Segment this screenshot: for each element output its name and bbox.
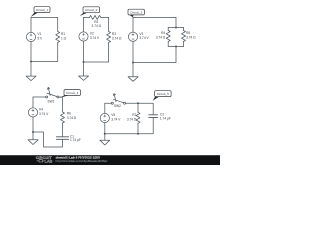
capacitor C2 [149, 115, 158, 118]
wire: circuit 1 left branch [30, 17, 32, 61]
ground circuit 5 [100, 134, 110, 145]
junction node R7 bottom [137, 133, 139, 135]
svg-text:3.74 V: 3.74 V [139, 36, 149, 40]
wire: R7 bottom lead [137, 123, 139, 133]
capacitor C1 [56, 137, 68, 140]
wire: circuit 4 top left [33, 96, 46, 98]
callout flag Circuit_2 [80, 7, 100, 16]
ground circuit 3 [128, 63, 138, 82]
svg-text:3.74 V: 3.74 V [111, 117, 121, 121]
voltage source V4 [28, 108, 37, 117]
svg-text:3.74 Ω: 3.74 Ω [67, 116, 77, 120]
svg-text:1.74 μF: 1.74 μF [70, 138, 81, 142]
wire: circuit 1 right bottom lead + bottom [31, 43, 58, 62]
wire: circuit 2 top right [101, 16, 109, 18]
junction node SW2-R7 top [137, 102, 139, 104]
wire: circuit 2 left branch [83, 17, 85, 62]
switch SW1 blade [47, 93, 57, 97]
callout flag Circuit_5 [153, 91, 171, 101]
wire: circuit 5 top right [126, 103, 154, 114]
wire: R5 bottom lead [183, 42, 185, 47]
wire: circuit 1 top [31, 16, 58, 18]
wire: circuit 3 top [133, 17, 176, 27]
switch SW2 arrow [113, 94, 116, 102]
switch SW1 terminal left [46, 96, 48, 98]
junction node circuit 1 ground [30, 61, 32, 63]
svg-text:SW2: SW2 [114, 104, 121, 108]
callout flag Circuit_1 [31, 7, 50, 17]
wire: R4 top lead [167, 28, 169, 31]
svg-text:3.74 Ω: 3.74 Ω [186, 35, 196, 39]
wire: circuit 5 left branch [104, 103, 106, 134]
wire: circuit 2 right bottom lead + bottom [84, 43, 109, 63]
wire: circuit 3 parallel top bar [168, 27, 183, 29]
wire: circuit 1 right top lead [57, 17, 59, 31]
wire: circuit 2 right top lead [108, 17, 110, 31]
ground circuit 2 [79, 62, 89, 80]
switch SW2 terminal left [111, 102, 113, 104]
wire: R6 to C1 lead [62, 123, 64, 137]
svg-text:5 V: 5 V [37, 36, 43, 40]
svg-text:3.74 V: 3.74 V [39, 112, 49, 116]
voltage source V1 [26, 32, 35, 41]
voltage source V3 [128, 32, 137, 41]
watermark bar [0, 155, 220, 165]
wire: circuit 4 left branch [32, 97, 34, 132]
svg-text:SW1: SW1 [48, 100, 55, 104]
switch SW2 terminal right [124, 102, 126, 104]
junction node parallel top [175, 27, 177, 29]
wire: C2 bottom lead + circuit 5 bottom [105, 117, 153, 133]
callout flag Circuit_3 [128, 9, 144, 17]
junction node circuit 4 ground [32, 131, 34, 133]
svg-text:1.74 μF: 1.74 μF [160, 117, 171, 121]
svg-text:http://circuitlab.com/c6pd8sws: http://circuitlab.com/c6pd8swsku8r68pr [56, 159, 108, 163]
wire: circuit 3 parallel bottom bar [168, 46, 183, 48]
resistor R4 [166, 31, 170, 42]
svg-text:Circuit_4: Circuit_4 [66, 91, 78, 95]
wire: circuit 5 top left [105, 102, 112, 104]
callout flag Circuit_4 [59, 90, 80, 98]
junction node circuit 2 ground [83, 61, 85, 63]
svg-text:Circuit_5: Circuit_5 [157, 92, 169, 96]
resistor R2 [90, 15, 101, 19]
resistor R5 [182, 31, 186, 42]
junction node circuit 3 ground [132, 62, 134, 64]
svg-text:3.74 V: 3.74 V [90, 36, 100, 40]
resistor R7 [136, 112, 140, 123]
wire: circuit 2 top left [84, 16, 90, 18]
svg-text:3.74 Ω: 3.74 Ω [92, 24, 102, 28]
wire: circuit 4 bottom [33, 132, 63, 147]
wire: circuit 3 left branch [132, 17, 134, 62]
voltage source V5 [100, 113, 109, 122]
svg-text:3.74 Ω: 3.74 Ω [156, 35, 166, 39]
ground circuit 1 [26, 62, 36, 81]
svg-text:Circuit_2: Circuit_2 [85, 8, 97, 12]
wire: R5 top lead [183, 28, 185, 31]
voltage source V2 [79, 32, 88, 41]
resistor R6 [61, 112, 65, 123]
svg-text:3.74 Ω: 3.74 Ω [127, 117, 137, 121]
switch SW1 arrow [48, 87, 51, 95]
wire: circuit 4 top right [59, 97, 63, 112]
switch SW1 terminal right [57, 96, 59, 98]
svg-text:1 Ω: 1 Ω [61, 36, 67, 40]
wire: circuit 3 right leg + bottom [133, 47, 176, 63]
svg-text:Circuit_3: Circuit_3 [130, 11, 142, 15]
wire: R4 bottom lead [167, 42, 169, 47]
wire: R7 top lead [137, 103, 139, 112]
junction node circuit 5 ground [104, 133, 106, 135]
svg-text:3.74 Ω: 3.74 Ω [112, 36, 122, 40]
svg-text:LAB: LAB [45, 160, 53, 164]
resistor R3 [107, 32, 111, 43]
resistor R1 [56, 32, 60, 43]
svg-text:Circuit_1: Circuit_1 [36, 8, 48, 12]
junction node parallel bottom [175, 46, 177, 48]
ground circuit 4 [28, 132, 38, 145]
switch SW2 blade [113, 99, 123, 103]
